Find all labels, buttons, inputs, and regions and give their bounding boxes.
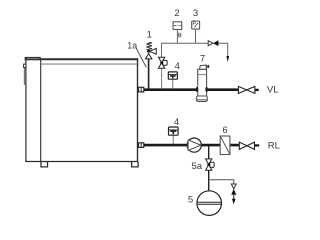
check valve filled triangle <box>213 40 218 46</box>
body <box>198 69 207 96</box>
box 2 capillary connector <box>177 33 180 38</box>
safety valve U1 spring <box>146 42 152 50</box>
RL connection stub on tank <box>139 143 144 148</box>
drain valve open triangle <box>231 184 236 189</box>
expansion vessel 5 <box>197 191 222 216</box>
safety valve dot <box>147 50 150 53</box>
vent head <box>200 65 207 69</box>
upper manifold line <box>162 43 209 57</box>
tank top edge <box>40 58 138 60</box>
boiler tank body <box>24 57 139 167</box>
svg-text:1: 1 <box>147 30 152 41</box>
tank left foot <box>41 162 48 167</box>
svg-text:4: 4 <box>174 117 180 128</box>
flanges <box>196 87 199 92</box>
pressure switch box 2 <box>173 22 182 30</box>
svg-text:VL: VL <box>267 85 279 96</box>
VL pipe <box>144 88 238 91</box>
safety valve drain pipe 1a <box>148 59 150 90</box>
svg-text:2: 2 <box>174 8 179 19</box>
VL pipe stub after valve <box>255 89 259 91</box>
tank inner vertical seam <box>40 59 42 161</box>
RL shut-off valve <box>239 142 254 149</box>
thermometer box 4 (top) <box>168 72 177 89</box>
pressure gauge box 3 <box>192 21 200 29</box>
dirt strainer 6 <box>220 136 230 155</box>
manifold segment after check valve <box>219 43 228 56</box>
expansion vessel stem upper <box>208 146 210 159</box>
capped service valve near safety group <box>158 57 167 88</box>
tank right edge <box>137 58 139 161</box>
VL connection stub on tank <box>139 87 144 92</box>
RL pipe stub after valve <box>255 144 260 146</box>
safety valve outlet triangle <box>149 48 156 54</box>
box 2 stem <box>176 30 178 44</box>
drain shaft <box>233 195 235 200</box>
check valve open triangle <box>208 41 213 46</box>
svg-text:5a: 5a <box>191 161 202 172</box>
pump <box>187 138 201 152</box>
expansion vessel stem lower <box>208 170 210 191</box>
bottom cup <box>196 96 207 101</box>
drain valve filled triangle <box>231 189 236 195</box>
thermometer box 4 (bottom) <box>169 127 179 144</box>
svg-text:4: 4 <box>175 61 181 72</box>
tank left side bar <box>24 68 26 85</box>
drain branch line <box>209 180 234 184</box>
RL pipe <box>144 144 239 147</box>
svg-text:5: 5 <box>188 195 193 206</box>
drain arrow <box>232 199 236 204</box>
svg-text:RL: RL <box>268 140 281 151</box>
safety valve inlet triangle <box>146 54 152 59</box>
tank top cap <box>25 57 41 60</box>
manifold discharge arrow <box>226 56 229 62</box>
capped valve 5a <box>206 159 215 170</box>
tank bottom edge <box>25 161 138 163</box>
svg-text:7: 7 <box>200 53 205 64</box>
tank right foot <box>132 162 139 167</box>
svg-text:3: 3 <box>193 8 198 19</box>
air separator 7 <box>196 65 209 102</box>
vent nozzle <box>206 65 207 68</box>
VL shut-off valve <box>238 86 255 93</box>
svg-text:1a: 1a <box>127 41 137 51</box>
tank inner top gray line <box>41 63 137 65</box>
tank left hinge notch <box>24 64 26 67</box>
tank left edge <box>25 57 27 161</box>
box 3 stem <box>195 29 197 43</box>
svg-text:6: 6 <box>222 125 227 136</box>
leader line for label 1a <box>136 48 146 67</box>
